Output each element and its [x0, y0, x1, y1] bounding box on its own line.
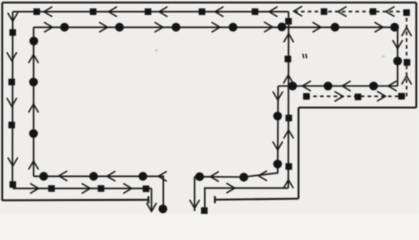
inner-boundary circle marker C4	[60, 23, 69, 32]
arrowhead pointing U (column toward S15)	[284, 130, 293, 138]
wire: inner chain lobe bottom run (leftward)	[278, 85, 398, 87]
outer-boundary square marker S10	[48, 185, 55, 192]
outer-boundary square marker S24	[404, 59, 411, 66]
arrowhead pointing L (bottom run toward C21)	[107, 172, 115, 181]
arrowhead pointing R (bottom run toward S11)	[82, 184, 90, 193]
wire: inner chain top run (rightward)	[34, 26, 398, 28]
inner-boundary circle marker C13	[324, 82, 333, 91]
inner-boundary circle marker C19	[159, 205, 168, 214]
outer-boundary square marker S6	[9, 29, 16, 36]
inner-boundary circle marker C7	[229, 23, 238, 32]
arrowhead pointing D (descent toward C15)	[273, 92, 282, 100]
arrowhead pointing R (bottom run toward S10)	[31, 184, 39, 193]
outer-boundary square marker S18	[303, 93, 310, 100]
outer-boundary square marker S5	[252, 8, 259, 15]
outer-boundary square marker S1	[33, 8, 40, 15]
arrowhead pointing D (descent toward C16)	[273, 142, 282, 150]
arrowhead pointing R (run toward ascending column)	[227, 183, 235, 192]
outer-boundary square marker S19	[355, 94, 362, 101]
arrowhead pointing R (top run toward C7)	[212, 23, 220, 32]
wire: outer chain notch descent	[151, 188, 153, 211]
wire: outer chain left run	[11, 12, 13, 185]
outer-boundary square marker S7	[8, 79, 15, 86]
wire: outer chain bottom-left run	[13, 187, 152, 189]
arrowhead pointing R (top run toward C5)	[100, 23, 108, 32]
arrowhead pointing L (run toward C18)	[210, 172, 218, 181]
arrowhead pointing U (column toward S17)	[284, 34, 293, 42]
inner-boundary circle marker C15	[273, 112, 282, 121]
arrowhead pointing L (lobe run toward C12)	[388, 81, 396, 90]
inner-boundary circle marker C12	[369, 82, 378, 91]
arrowhead pointing L (dashed top run joining solid corner)	[294, 7, 302, 16]
arrowhead pointing U (left column toward C2)	[29, 104, 38, 112]
outer-boundary square marker S11	[98, 185, 105, 192]
wire: outer chain ascending column	[287, 12, 289, 188]
arrowhead pointing R (top run toward C8)	[265, 22, 273, 31]
outer-boundary square marker S22	[370, 8, 377, 15]
wire: frame top edge	[2, 2, 416, 4]
inner-boundary circle marker C5	[115, 23, 124, 32]
inner-boundary circle marker C3	[29, 129, 38, 138]
inner-boundary circle marker C17	[239, 173, 248, 182]
outer-boundary square marker S23	[321, 8, 328, 15]
outer-boundary square marker S20	[398, 93, 405, 100]
wire: frame end-cap tick (right of notch)	[214, 196, 216, 203]
wire: frame end-cap tick (left of notch)	[147, 196, 149, 203]
outer-boundary square marker S17	[285, 18, 292, 25]
wire: frame right edge	[415, 3, 417, 108]
wire: frame bottom-left edge	[2, 199, 148, 202]
wire: inner chain notch ascent and bottom run (leftward)	[34, 176, 164, 209]
wire: dashed outer run along lobe bottom	[306, 95, 406, 97]
arrowhead pointing R (top run toward C9)	[313, 23, 321, 32]
arrowhead pointing D (descent toward C11)	[393, 41, 402, 49]
arrowhead pointing U (column toward S16)	[284, 75, 293, 83]
arrowhead pointing R (bottom run toward S12)	[124, 184, 132, 193]
arrowhead pointing L (dashed top run toward S22)	[386, 7, 394, 16]
wire: inner chain notch descent	[194, 177, 196, 211]
wire: outer chain notch ascent and run right	[205, 188, 288, 211]
arrowhead pointing U (column toward S14)	[284, 180, 293, 188]
arrowhead pointing U (dashed run toward S21 col)	[402, 76, 411, 84]
arrowhead pointing D (notch descent, cut off)	[147, 203, 156, 211]
arrowhead pointing L (top run toward S3)	[159, 7, 167, 16]
outer-boundary square marker S14	[286, 163, 293, 170]
wire: dashed outer run along lobe top	[292, 11, 407, 13]
outer-boundary square marker S8	[8, 122, 15, 129]
inner-boundary circle marker C11	[393, 57, 402, 66]
wire: inner chain lobe right descent	[397, 27, 399, 86]
arrowhead pointing D (left run toward S8)	[7, 98, 16, 106]
arrowhead pointing R (top run toward C6)	[155, 23, 163, 32]
inner-boundary circle marker C14	[288, 82, 297, 91]
inner-boundary circle marker C16	[273, 160, 282, 169]
wire: frame lobe bottom edge	[299, 107, 417, 109]
wire: frame bottom-right edge	[215, 199, 299, 200]
outer-boundary square marker S21	[403, 9, 410, 16]
arrowhead pointing R (dashed run toward S20)	[378, 92, 386, 101]
outer-boundary square marker S3	[145, 8, 152, 15]
arrowhead pointing R (dashed run toward S19)	[335, 92, 343, 101]
arrowhead pointing L (lobe run toward C13)	[342, 81, 350, 90]
arrowhead pointing D (notch descent, cut off)	[190, 200, 199, 208]
wire: inner chain cutout descent and run left	[195, 86, 279, 177]
arrowhead pointing D (left run toward S9)	[8, 158, 17, 166]
arrowhead pointing L (run toward C17)	[259, 171, 267, 180]
outer-boundary square marker S16	[285, 56, 292, 63]
arrowhead pointing D (left run toward S6)	[8, 13, 17, 21]
inner-boundary circle marker C9	[331, 23, 340, 32]
arrowhead pointing D (left run toward S7)	[7, 53, 16, 61]
outer-boundary square marker S15	[286, 115, 293, 122]
arrowhead pointing L (top run toward S1)	[44, 7, 52, 16]
arrowhead pointing U (dashed run toward S21)	[402, 28, 411, 36]
inner-boundary circle marker C18	[195, 172, 204, 181]
inner-boundary circle marker C21	[89, 172, 98, 181]
outer-boundary square marker S4	[199, 8, 206, 15]
arrowhead pointing R (top run toward C10)	[375, 23, 383, 32]
outer-boundary square marker S9	[10, 181, 17, 188]
arrowhead pointing L (top run toward S2)	[109, 7, 117, 16]
outer-boundary square marker S12	[143, 186, 150, 193]
arrowhead pointing L (top run toward S4)	[215, 7, 223, 16]
arrowhead pointing R (top run toward C4)	[45, 23, 53, 32]
inner-boundary circle marker C22	[39, 172, 48, 181]
inner-boundary circle marker C6	[172, 23, 181, 32]
arrowhead pointing L (bottom run toward C22)	[59, 171, 67, 180]
outer-boundary square marker S13	[201, 207, 208, 214]
arrowhead pointing U (left column toward C1)	[29, 55, 38, 63]
outer-boundary square marker S2	[90, 8, 97, 15]
inner-boundary circle marker C10	[390, 23, 399, 32]
arrowhead pointing U (left column toward C3)	[29, 161, 38, 169]
wire: inner chain left column (upward)	[33, 27, 35, 176]
inner-boundary circle marker C1	[29, 37, 38, 46]
inner-boundary circle marker C20	[139, 172, 148, 181]
wire: dashed outer run up lobe right side	[406, 13, 408, 97]
wire: frame lobe left edge	[298, 108, 300, 199]
wire: outer chain top run	[13, 11, 289, 13]
faint scan speck	[155, 49, 158, 51]
stray quotation mark artifact	[302, 54, 307, 59]
arrowhead pointing L (top run toward S5)	[269, 7, 277, 16]
arrowhead pointing L (dashed top run toward S23)	[338, 7, 346, 16]
arrowhead pointing L (bottom run toward C20)	[158, 172, 166, 181]
faint scan speck	[381, 55, 385, 57]
arrowhead pointing L (lobe run toward C14)	[302, 81, 310, 90]
wire: frame left edge	[1, 3, 3, 201]
inner-boundary circle marker C2	[29, 78, 38, 87]
inner-boundary circle marker C8	[278, 23, 287, 32]
